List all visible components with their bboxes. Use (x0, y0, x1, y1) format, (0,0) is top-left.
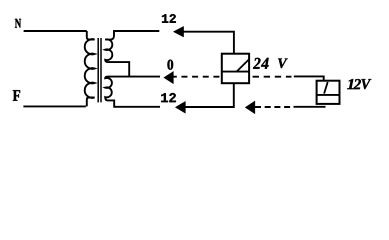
label 0 (center tap) (167, 60, 173, 70)
wire bottom solid into 12V unit (294, 106, 326, 108)
wire top 12 line to 24V unit (183, 32, 234, 54)
24V box diagonal (236, 60, 249, 73)
24V regulator box U1 (222, 54, 249, 83)
transformer T1 primary winding (85, 31, 95, 106)
wire 24V unit bottom feed (184, 83, 234, 107)
label N (15, 19, 21, 28)
dashed wire bottom line to 12V unit (255, 106, 291, 108)
arrow on 0 line (164, 71, 174, 83)
label 12V (347, 79, 371, 89)
12V regulator box U2 (317, 81, 340, 104)
label F (13, 90, 20, 101)
12V box diagonal (324, 82, 328, 94)
arrow on bottom line toward 24V feed (245, 101, 255, 114)
arrow on bottom 12 line (175, 101, 185, 113)
wire mid solid into 12V unit (294, 76, 324, 81)
label 12 (top output) (162, 14, 176, 23)
24V box divider (222, 71, 249, 73)
arrow on top 12 line (173, 26, 183, 37)
transformer T1 core (98, 38, 101, 102)
wire N to transformer (24, 30, 87, 32)
label 24 V (253, 58, 269, 69)
label 12 (bottom output) (161, 93, 176, 102)
transformer T1 secondary upper winding (105, 31, 159, 77)
dashed wire 0 line from 24V to 12V unit (253, 76, 292, 78)
12V box divider (317, 94, 340, 96)
wire F to transformer (23, 105, 86, 107)
transformer T1 secondary lower winding (105, 77, 160, 107)
dashed wire 0 line to 24V unit (171, 76, 221, 78)
